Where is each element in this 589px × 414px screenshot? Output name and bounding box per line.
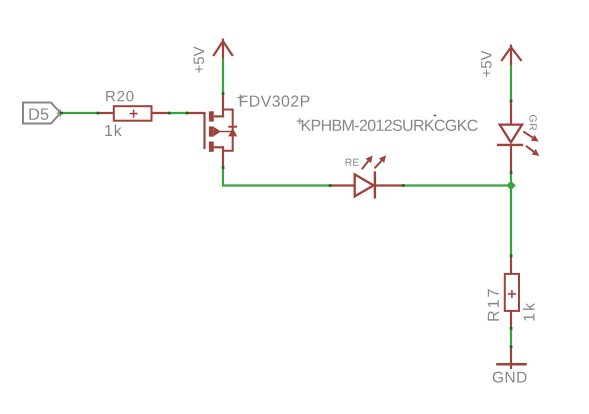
transistor Q1 drain pin: [222, 94, 224, 118]
LED RE: [355, 171, 375, 198]
LED GR anode pin: [510, 102, 512, 126]
transistor Q1 bulk arrow: [214, 127, 232, 136]
wire R17 to GND: [510, 311, 512, 347]
label RE: [346, 159, 359, 166]
wire junction to R17: [510, 186, 512, 275]
transistor Q1 body diode: [228, 127, 237, 137]
red origin dash above KC: [434, 115, 437, 117]
value 1k (R20): [105, 124, 122, 136]
+5V supply right: [501, 45, 521, 66]
wire D5 to R20: [60, 112, 114, 114]
wire LED GR to junction: [510, 172, 512, 186]
label KPHBM-2012SURKCGKC: [302, 120, 478, 131]
label GR: [529, 115, 536, 130]
transistor Q1 source pin: [222, 146, 224, 167]
wire LED RE to junction: [404, 184, 512, 186]
label FDV302P: [240, 95, 310, 106]
label R20: [106, 91, 133, 102]
port D5: [23, 103, 61, 124]
+5V supply left: [213, 39, 233, 59]
wire +5V to LED GR: [510, 65, 512, 102]
LED GR emission arrows: [523, 131, 539, 156]
transistor Q1 source connect: [214, 146, 224, 148]
pin cross at D5 tip: [57, 110, 64, 117]
pin endpoint dots: [60, 92, 512, 348]
transistor Q1 channel bars: [209, 111, 214, 152]
LED RE cathode pin: [375, 184, 404, 186]
transistor Q1 body diode frame: [222, 110, 233, 151]
ground GND: [496, 347, 527, 369]
resistor R20: [114, 106, 152, 121]
LED GR: [497, 125, 523, 145]
junction node: [506, 181, 515, 190]
wire Q1 source to node: [223, 167, 329, 186]
LED GR cathode pin: [510, 145, 512, 172]
resistor R17: [505, 274, 519, 311]
label R17: [488, 289, 499, 320]
LED RE anode pin: [330, 184, 355, 186]
value 1k (R17): [523, 303, 535, 321]
label GND: [493, 372, 527, 383]
label +5V left: [194, 46, 204, 72]
transistor Q1 FDV302P gate bar: [203, 112, 205, 149]
transistor Q1 drain connect: [214, 115, 224, 117]
text origin cross FDV302P: [237, 95, 243, 101]
wire R20 to Q1 gate: [152, 112, 206, 114]
label +5V right: [481, 50, 491, 76]
LED RE emission arrows: [362, 155, 386, 169]
wire +5V to Q1 drain: [222, 59, 224, 95]
text origin cross KPHBM: [297, 118, 303, 124]
